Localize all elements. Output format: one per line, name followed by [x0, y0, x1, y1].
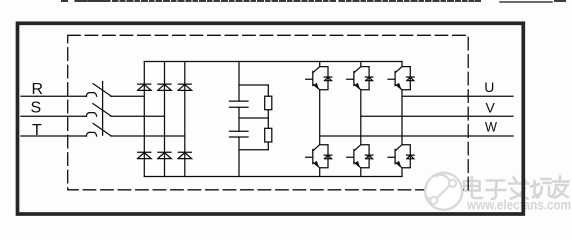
phase labels: [31, 79, 498, 139]
DC+ top bus: [144, 61, 402, 63]
switch linkage bar: [102, 82, 104, 136]
wire W output: [320, 135, 513, 137]
resistor R2: [265, 128, 272, 142]
resistor branch wire: [267, 85, 269, 150]
svg-text:U: U: [484, 79, 494, 95]
contact arc T: [86, 132, 96, 136]
wire S to rectifier: [111, 115, 165, 117]
top cut-off caption fragments: [62, 1, 565, 2]
char dian: [464, 178, 482, 199]
switch blade R: [93, 84, 111, 96]
capacitor C1: [230, 101, 249, 107]
wire U output: [402, 95, 513, 97]
wire T input: [21, 135, 87, 137]
char you: [552, 177, 569, 198]
node wire bottom: [239, 149, 268, 151]
IGBT Q2 (bottom leg1): [306, 145, 332, 177]
DC link branch wire: [238, 62, 240, 177]
watermark chinese text 电子发烧友 (drawn as light squiggle glyphs): [464, 177, 569, 200]
rectifier leg 2 wire: [164, 62, 166, 177]
svg-text:T: T: [32, 122, 42, 139]
svg-text:V: V: [486, 99, 496, 115]
wire S input: [21, 115, 87, 117]
leg1 mid wire: [319, 90, 321, 145]
wire R to rectifier: [111, 95, 145, 97]
diode D5: [158, 152, 172, 158]
switch blade S: [93, 104, 111, 116]
outer solid frame: [18, 23, 524, 214]
char fa: [509, 177, 528, 199]
node wire mid: [239, 117, 268, 119]
IGBT Q4 (bottom leg2): [347, 145, 373, 177]
IGBT Q6 (bottom leg3): [388, 145, 414, 177]
diode D6: [178, 152, 192, 158]
resistor R1: [265, 96, 272, 110]
char shao: [531, 179, 553, 198]
contact arc S: [86, 113, 96, 117]
svg-text:R: R: [32, 81, 44, 98]
leg3 mid wire: [401, 90, 403, 145]
switch blade T: [93, 123, 111, 135]
rectifier leg 3 wire: [184, 62, 186, 177]
IGBT Q3 (top leg2): [347, 62, 373, 90]
capacitor C2: [230, 131, 249, 137]
char zi: [487, 181, 506, 200]
svg-text:S: S: [31, 99, 42, 116]
diode D4: [138, 152, 152, 158]
wire R input: [21, 95, 87, 97]
IGBT Q5 (top leg3): [388, 62, 414, 90]
dashed converter box: [68, 35, 469, 190]
diode D1: [138, 84, 152, 90]
wire T to rectifier: [111, 135, 185, 137]
svg-text:www.elecfans.com: www.elecfans.com: [466, 197, 571, 213]
contact arc R: [86, 93, 96, 97]
diode D3: [178, 84, 192, 90]
watermark logo circle: [425, 173, 462, 210]
DC- bottom bus: [144, 176, 402, 178]
wire V output: [361, 115, 513, 117]
svg-text:W: W: [485, 118, 498, 134]
leg2 mid wire: [360, 90, 362, 145]
diode D2: [158, 84, 172, 90]
rectifier leg 1 wire: [143, 62, 145, 177]
node wire top: [239, 84, 268, 86]
IGBT Q1 (top leg1): [306, 62, 332, 90]
